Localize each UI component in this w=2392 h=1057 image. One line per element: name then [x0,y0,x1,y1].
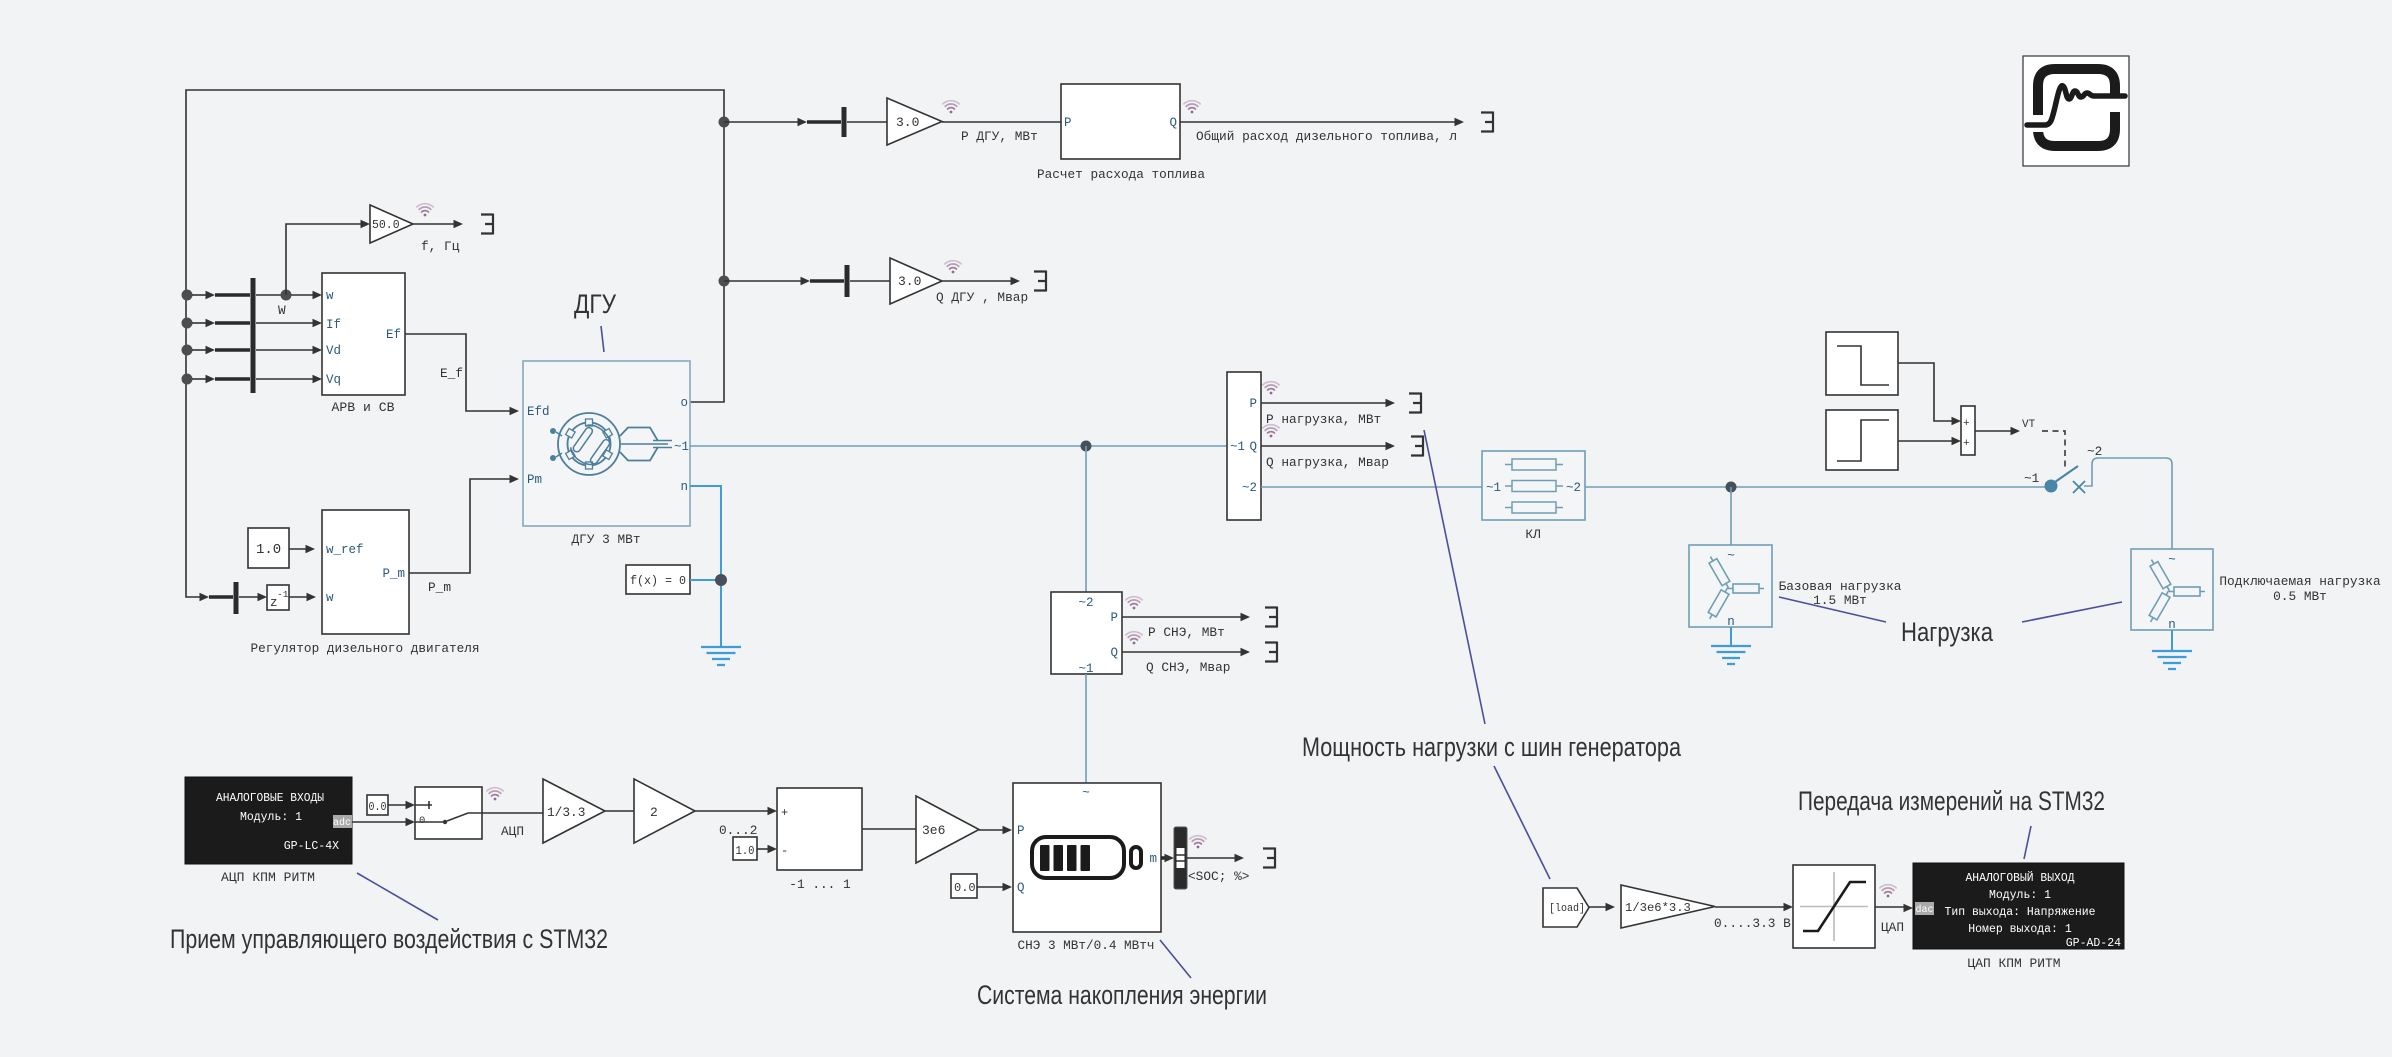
svg-text:Ef: Ef [386,328,401,342]
terminator P СНЭ [1265,607,1277,628]
wire step1 to sum [1898,363,1961,425]
svg-text:dac: dac [1915,904,1933,916]
svg-text:Р нагрузка, МВт: Р нагрузка, МВт [1266,412,1381,427]
svg-text:2: 2 [650,805,658,820]
svg-text:Прием управляющего воздействия: Прием управляющего воздействия с STM32 [170,924,608,954]
svg-text:Q: Q [1110,646,1118,660]
block СНЭ power measure [1051,592,1122,676]
wire selector to terminator [1187,854,1244,862]
wifi icon f Hz [417,204,433,217]
gain 3e6 [916,796,979,863]
wire feedback loop from generator output o [186,90,724,597]
wire f(x) to node [690,579,716,581]
svg-text:+: + [1963,438,1970,450]
svg-text:0.0: 0.0 [954,881,976,895]
power bus КЛ to switch [1585,486,2046,488]
wire base load n to ground [1730,627,1732,645]
svg-text:If: If [326,318,341,332]
block СНЭ battery [1013,783,1161,953]
svg-text:GP-AD-24: GP-AD-24 [2066,937,2121,950]
block Подключаемая нагрузка [2131,549,2213,632]
svg-text:adc: adc [333,817,351,829]
svg-text:~1: ~1 [1230,440,1245,454]
svg-text:3.0: 3.0 [898,274,921,289]
svg-text:W: W [278,303,286,318]
svg-text:Модуль: 1: Модуль: 1 [1989,889,2051,902]
wifi icon Q нагрузка [1263,425,1279,438]
constant 0.0 adc [367,795,388,815]
svg-text:-: - [781,844,788,858]
gain 1/3.3 [543,779,605,843]
svg-text:1.0: 1.0 [736,844,755,858]
block Базовая нагрузка [1689,545,1772,629]
block ДГУ 3 МВт [523,361,690,547]
goto tag load [1543,888,1589,927]
wifi icon ЦАП [1880,885,1896,898]
power bus to КЛ [1261,486,1482,488]
wifi icon SOC [1190,836,1206,849]
svg-text:Efd: Efd [527,405,550,419]
svg-text:3.0: 3.0 [896,115,919,130]
svg-text:P: P [1017,824,1025,838]
gain 3.0 P [887,98,942,145]
annotation line to Мощность text [1424,430,1485,724]
wire 1.0 to w_ref [289,545,315,553]
svg-text:VT: VT [2022,419,2036,431]
wire power branch down to СНЭ measure [1085,446,1087,592]
svg-text:1/3e6*3.3: 1/3e6*3.3 [1625,901,1691,915]
wire СНЭ measure to battery [1085,674,1087,783]
wire Q СНЭ to terminator [1122,648,1250,656]
wire left rail to z-1 bus [200,593,268,601]
annotation line Мощность to load tag [1494,766,1550,879]
wire gain 50.0 to terminator [413,220,463,228]
terminator Q СНЭ [1265,642,1277,663]
svg-text:GP-LC-4X: GP-LC-4X [284,840,339,853]
constant 0.0 Q [951,874,977,898]
bus selector SOC [1174,827,1187,889]
svg-text:Общий расход дизельного топлив: Общий расход дизельного топлива, л [1196,129,1457,144]
node left rail y379 [182,374,193,385]
svg-text:~: ~ [1082,786,1090,800]
svg-text:~: ~ [1727,549,1735,563]
node at x724 y122 [719,117,730,128]
saturation block [1793,865,1875,948]
svg-text:~1: ~1 [2024,471,2040,486]
constant 1.0 [248,528,289,568]
svg-text:0....3.3 В: 0....3.3 В [1714,916,1791,931]
block КЛ cable line [1482,451,1585,542]
wire gain to fuel P [942,121,1061,123]
block Расчет расхода топлива [1037,84,1205,182]
svg-text:Расчет расхода топлива: Расчет расхода топлива [1037,167,1205,182]
wire Ef to Efd [405,334,519,415]
svg-text:Р ДГУ, МВт: Р ДГУ, МВт [961,129,1038,144]
wire gain 2 to sum [695,807,777,815]
sum block [1961,406,1975,455]
node left rail y323 [182,318,193,329]
node at x724 y281 [719,276,730,287]
wifi icon P СНЭ [1126,597,1142,610]
svg-text:~2: ~2 [2087,444,2102,459]
svg-text:o: o [680,396,688,410]
svg-text:[load]: [load] [1549,903,1585,915]
svg-text:АНАЛОГОВЫЕ ВХОДЫ: АНАЛОГОВЫЕ ВХОДЫ [216,792,324,805]
node W on w row [281,290,292,301]
svg-text:P: P [1110,611,1118,625]
wire adc to switch [352,818,415,826]
gain 2 [634,779,695,843]
annotation line Нагрузка to base load [1779,597,1886,622]
annotation line СНЭ [1160,940,1191,978]
gain 50.0 [370,205,413,243]
wire switch to Подключаемая нагрузка [2084,458,2172,549]
wire fuel Q to terminator [1180,118,1464,126]
step source 2 [1826,410,1898,470]
svg-text:~1: ~1 [674,440,689,454]
bus adapter bar Q branch [845,265,850,297]
wire branch down to base load [1730,487,1732,545]
annotation line АЦП block [357,873,438,920]
svg-text:P: P [1249,397,1257,411]
terminator f Hz [481,214,493,235]
wire W node to gain 50.0 [286,220,370,295]
svg-text:КЛ: КЛ [1525,527,1540,542]
wire gain to saturation [1715,903,1793,911]
svg-text:АРВ и СВ: АРВ и СВ [332,400,395,415]
sum rect block [777,788,862,892]
switch block [415,787,482,839]
svg-text:Pm: Pm [527,473,542,487]
svg-text:f(x) = 0: f(x) = 0 [630,574,686,588]
wire z-1 to w [289,593,316,601]
svg-text:n: n [2168,618,2176,632]
svg-text:P_m: P_m [382,567,405,581]
svg-text:Vd: Vd [326,344,341,358]
svg-text:-1 ... 1: -1 ... 1 [789,877,851,892]
svg-text:Модуль: 1: Модуль: 1 [240,811,302,824]
svg-text:ДГУ: ДГУ [574,289,617,319]
node left rail y350 [182,345,193,356]
block f(x)=0 [626,565,690,594]
wire sum to VT [1975,427,2020,435]
wifi icon P нагрузка [1263,382,1279,395]
svg-text:~1: ~1 [1078,662,1093,676]
svg-text:~2: ~2 [1242,481,1257,495]
wifi icon Q СНЭ [1126,632,1142,645]
ground load2 [2152,651,2192,669]
switch cross [2073,481,2085,493]
wire 1.0 to sum minus [757,845,777,853]
svg-text:0: 0 [419,815,425,827]
svg-text:ДГУ 3 МВт: ДГУ 3 МВт [572,532,641,547]
wifi icon fuel Q [1184,101,1200,114]
svg-text:АЦП: АЦП [501,824,524,839]
svg-text:0.0: 0.0 [369,801,387,814]
block АРВ и СВ [322,273,405,415]
svg-text:f, Гц: f, Гц [421,239,460,254]
wire gain to terminator Q [942,277,1020,285]
synchronous machine icon [550,413,672,475]
wire sum to gain 3e6 [862,828,916,830]
svg-text:Vq: Vq [326,373,341,387]
node power bus to СНЭ [1081,441,1092,452]
svg-text:+: + [781,806,788,820]
switch pivot dot [2045,480,2058,493]
svg-text:-1: -1 [277,589,289,600]
wire bus row to Vq input [192,375,322,383]
terminator Q нагрузка [1411,436,1423,457]
ground base load [1711,646,1751,664]
wire saturation to dac [1875,904,1913,912]
svg-text:Q СНЭ, Мвар: Q СНЭ, Мвар [1146,660,1230,675]
block ЦАП КПМ РИТМ [1913,863,2124,971]
wire Q нагрузка to terminator [1261,442,1395,450]
logo box [2023,56,2129,166]
svg-text:Подключаемая нагрузка: Подключаемая нагрузка [2219,574,2381,589]
wire load tag to gain [1589,903,1615,911]
svg-text:1/3.3: 1/3.3 [547,805,585,820]
svg-text:~1: ~1 [1486,481,1501,495]
wire 0.0 to switch [388,801,415,809]
svg-text:СНЭ 3 МВт/0.4 МВтч: СНЭ 3 МВт/0.4 МВтч [1018,938,1155,953]
ground ДГУ n [701,647,741,665]
svg-text:АНАЛОГОВЫЙ ВЫХОД: АНАЛОГОВЫЙ ВЫХОД [1966,871,2075,885]
svg-text:n: n [680,480,688,494]
svg-text:Q ДГУ , Мвар: Q ДГУ , Мвар [936,290,1028,305]
wire bus row to Vd input [192,346,322,354]
svg-text:Q: Q [1017,881,1025,895]
node power bus base load [1726,482,1737,493]
svg-text:Q: Q [1249,440,1257,454]
block z-1 unit delay [267,585,289,610]
terminator fuel [1481,112,1493,133]
gain 1/3e6*3.3 [1621,885,1715,928]
svg-text:Р СНЭ, МВт: Р СНЭ, МВт [1148,625,1225,640]
dashed wire VT to switch [2042,431,2065,470]
terminator Q ДГУ [1034,271,1046,292]
svg-text:w: w [326,289,334,303]
svg-text:P: P [1064,116,1072,130]
svg-text:w: w [326,591,334,605]
wifi icon АЦП [487,788,503,801]
svg-text:0.5 МВт: 0.5 МВт [2273,589,2327,604]
wire n port to ground [690,486,721,646]
wire step2 to sum [1898,437,1961,445]
svg-text:w_ref: w_ref [326,543,364,557]
wifi icon P ДГУ [943,101,959,114]
svg-text:Передача измерений на STM32: Передача измерений на STM32 [1798,786,2105,816]
svg-text:E_f: E_f [440,366,463,381]
svg-text:Мощность нагрузки с шин генера: Мощность нагрузки с шин генератора [1302,732,1682,762]
wire bus row to w input [192,291,322,299]
svg-text:~2: ~2 [1078,596,1093,610]
block АЦП КПМ РИТМ [185,777,352,885]
svg-text:Q: Q [1169,116,1177,130]
wire top branch P to fuel chain [724,118,887,126]
node on n wire [715,574,727,586]
wire P_m to Pm [409,475,519,573]
svg-text:<SOC; %>: <SOC; %> [1188,869,1249,884]
wire load2 n to ground [2171,630,2173,650]
annotation line ДГУ [601,326,604,352]
svg-text:Номер выхода: 1: Номер выхода: 1 [1968,923,2072,936]
svg-text:P_m: P_m [428,580,451,595]
svg-text:Регулятор дизельного двигателя: Регулятор дизельного двигателя [251,641,480,656]
block Регулятор дизельного двигателя [251,510,480,656]
svg-text:50.0: 50.0 [372,219,400,232]
node left rail y295 [182,290,193,301]
wire m to selector [1161,854,1174,862]
wire to gain 2 [605,810,634,812]
bus adapter bar left [251,278,256,393]
wire 3e6 to P СНЭ [979,826,1012,834]
wire bus row to If input [192,319,322,327]
step source 1 [1826,332,1898,395]
svg-text:m: m [1149,852,1157,866]
terminator P нагрузка [1409,393,1421,414]
svg-text:+: + [1963,418,1970,430]
svg-text:Базовая нагрузка: Базовая нагрузка [1779,579,1902,594]
constant 1.0 small [733,837,757,860]
svg-text:Тип выхода: Напряжение: Тип выхода: Напряжение [1945,906,2096,919]
block power measure load [1227,372,1261,520]
svg-text:1.0: 1.0 [256,542,281,558]
wire switch to gain 1/3.3 [482,812,543,814]
svg-text:~: ~ [2168,553,2176,567]
gain 3.0 Q [890,258,942,304]
switch blade [2055,466,2078,482]
wire 0.0 to Q СНЭ [977,883,1012,891]
wifi icon Q ДГУ [945,261,961,274]
svg-text:ЦАП КПМ РИТМ: ЦАП КПМ РИТМ [1968,956,2061,971]
wire Q branch to gain [724,277,890,285]
svg-text:Система накопления энергии: Система накопления энергии [977,980,1267,1010]
svg-text:АЦП КПМ РИТМ: АЦП КПМ РИТМ [221,870,315,885]
terminator SOC [1263,848,1275,869]
svg-text:ЦАП: ЦАП [1881,920,1904,935]
annotation line Передача [2024,826,2031,859]
svg-text:~2: ~2 [1566,481,1581,495]
svg-text:Q нагрузка, Мвар: Q нагрузка, Мвар [1266,455,1389,470]
bus adapter bar P branch [842,107,847,137]
svg-text:1.5 МВт: 1.5 МВт [1813,593,1867,608]
wire P нагрузка to terminator [1261,399,1395,407]
svg-text:0...2: 0...2 [719,823,757,838]
power bus generator y446 [690,445,1227,447]
annotation line Нагрузка to load2 [2022,602,2122,622]
wire P СНЭ to terminator [1122,613,1250,621]
svg-text:n: n [1727,615,1735,629]
bus adapter bar z-1 [234,582,239,614]
svg-text:Нагрузка: Нагрузка [1901,617,1994,647]
svg-text:3e6: 3e6 [922,823,945,838]
